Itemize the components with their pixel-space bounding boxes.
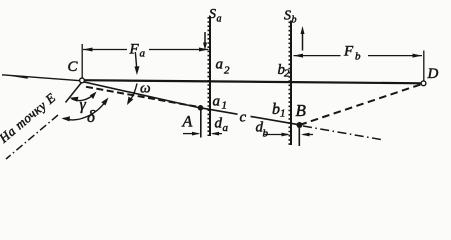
svg-text:F: F	[129, 42, 140, 58]
svg-text:b: b	[272, 101, 280, 118]
svg-text:F: F	[343, 44, 354, 60]
svg-text:a: a	[213, 94, 221, 110]
svg-text:a: a	[140, 48, 146, 60]
svg-text:1: 1	[222, 100, 228, 112]
svg-text:D: D	[427, 66, 439, 82]
svg-text:2: 2	[284, 68, 290, 80]
svg-text:b: b	[355, 51, 361, 63]
svg-text:B: B	[296, 101, 307, 120]
svg-text:c: c	[240, 110, 247, 126]
svg-text:b: b	[292, 15, 297, 26]
svg-text:a: a	[217, 14, 222, 25]
svg-text:1: 1	[280, 108, 286, 120]
svg-text:a: a	[216, 57, 224, 73]
svg-text:a: a	[223, 122, 229, 134]
svg-text:d: d	[215, 116, 223, 132]
svg-text:γ: γ	[80, 97, 87, 114]
svg-text:S: S	[284, 9, 291, 24]
svg-text:A: A	[182, 113, 193, 130]
svg-text:S: S	[209, 7, 216, 22]
svg-text:b: b	[263, 128, 269, 140]
svg-text:C: C	[68, 59, 79, 75]
svg-text:δ: δ	[87, 107, 96, 126]
svg-text:ω: ω	[140, 81, 151, 97]
svg-text:2: 2	[224, 65, 230, 77]
